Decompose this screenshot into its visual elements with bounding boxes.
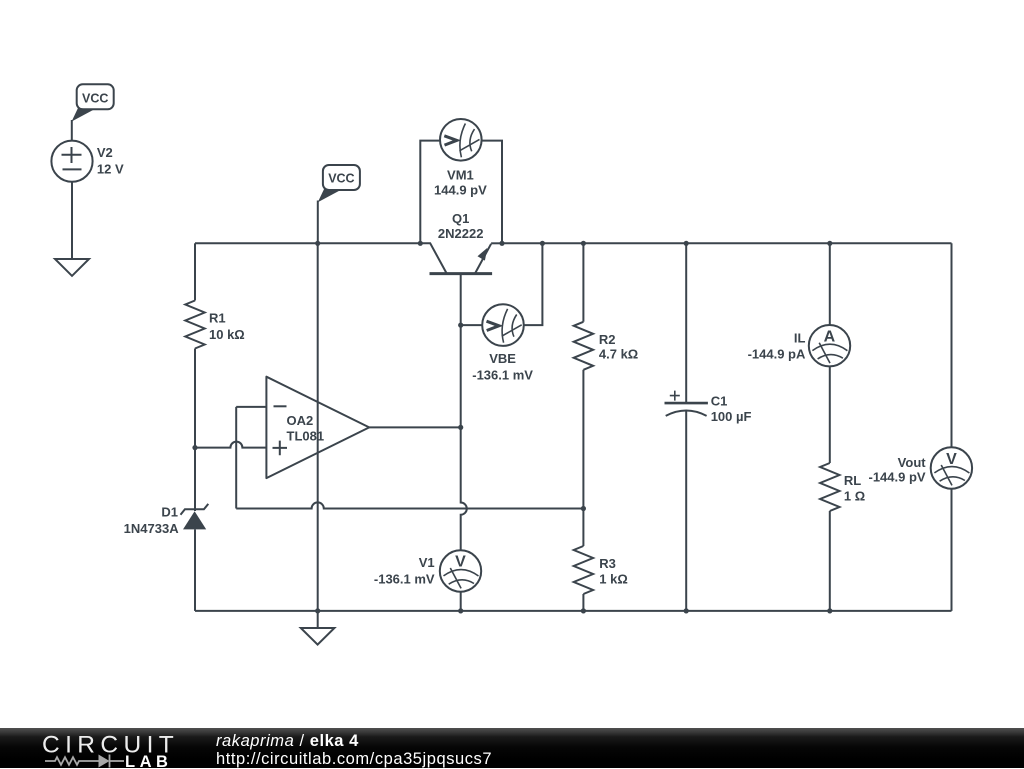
svg-text:-144.9 pA: -144.9 pA xyxy=(748,347,806,362)
svg-text:Q1: Q1 xyxy=(452,211,469,226)
node top bus C1 xyxy=(684,241,689,246)
wire left rail middle xyxy=(194,349,196,448)
svg-text:V: V xyxy=(455,554,466,571)
capacitor C1 xyxy=(665,391,752,425)
wire R2 bottom to feedback node xyxy=(582,370,584,509)
node bottom bus V1 xyxy=(458,608,463,613)
wire opamp + input (with hop over feedback drop) xyxy=(195,442,266,448)
svg-text:2N2222: 2N2222 xyxy=(438,226,484,241)
svg-text:R3: R3 xyxy=(599,556,616,571)
svg-text:OA2: OA2 xyxy=(287,413,314,428)
svg-text:-136.1 mV: -136.1 mV xyxy=(374,572,435,587)
node bottom bus C1 xyxy=(684,608,689,613)
wire C1 bottom xyxy=(685,411,687,611)
resistor R3 xyxy=(574,546,628,594)
node bottom bus ground xyxy=(315,608,320,613)
node feedback / R2 / R3 xyxy=(581,506,586,511)
wire VBE right stub and riser to top bus xyxy=(523,243,542,325)
wire R3 bottom to bus xyxy=(582,594,584,611)
node top bus VM1 left xyxy=(418,241,423,246)
wire VBE left stub xyxy=(461,324,483,326)
wire V2 to ground xyxy=(71,182,73,259)
svg-text:1 kΩ: 1 kΩ xyxy=(599,571,628,586)
svg-text:4.7 kΩ: 4.7 kΩ xyxy=(599,347,638,362)
transistor Q1 2N2222 xyxy=(420,211,502,273)
resistor R2 xyxy=(574,322,639,370)
wire feedback drop xyxy=(235,407,237,509)
svg-text:A: A xyxy=(824,328,836,345)
svg-text:1N4733A: 1N4733A xyxy=(124,521,180,536)
svg-text:LAB: LAB xyxy=(125,753,172,769)
net flag VCC (middle) xyxy=(318,165,360,202)
resistor R1 xyxy=(185,301,244,349)
meter VM1 left leg wire xyxy=(420,141,440,244)
wire Q1 base to VBE node xyxy=(460,274,462,326)
wire VCC flag to top bus xyxy=(317,201,319,244)
wire top bus right segment xyxy=(502,242,952,244)
voltmeter Vout xyxy=(869,447,973,488)
node top bus IL xyxy=(827,241,832,246)
svg-text:10 kΩ: 10 kΩ xyxy=(209,327,245,342)
voltmeter VM1 xyxy=(434,119,487,198)
node Q1 base / VBE xyxy=(458,323,463,328)
svg-text:12 V: 12 V xyxy=(97,161,124,176)
wire IL top xyxy=(829,243,831,325)
resistor RL xyxy=(820,463,865,511)
wire D1 anode to bottom bus xyxy=(194,529,196,611)
node VCC rail top bus xyxy=(315,241,320,246)
wire VCC rail through opamp to ground xyxy=(317,243,319,611)
node top bus VM1 right xyxy=(499,241,504,246)
svg-text:1 Ω: 1 Ω xyxy=(844,488,865,503)
wire opamp output xyxy=(369,426,461,428)
node bottom bus RL xyxy=(827,608,832,613)
svg-text:R2: R2 xyxy=(599,332,616,347)
svg-text:Vout: Vout xyxy=(898,455,927,470)
svg-text:V1: V1 xyxy=(419,555,435,570)
wire VCC flag to V2 xyxy=(71,120,73,141)
svg-text:RL: RL xyxy=(844,473,861,488)
voltmeter V1 xyxy=(374,550,481,591)
svg-text:-144.9 pV: -144.9 pV xyxy=(869,470,926,485)
net flag VCC (left, for V2) xyxy=(72,84,114,121)
svg-text:VBE: VBE xyxy=(489,351,516,366)
ground (below V2) xyxy=(55,259,89,276)
wire R2 top xyxy=(582,243,584,321)
ground (bottom middle) xyxy=(301,611,335,645)
meter VM1 right leg wire xyxy=(482,141,502,244)
svg-text:VM1: VM1 xyxy=(447,168,474,183)
node top bus VBE riser xyxy=(540,241,545,246)
op-amp OA2 TL081 xyxy=(266,377,369,478)
node bottom bus R3 xyxy=(581,608,586,613)
wire right rail lower xyxy=(951,489,953,611)
svg-text:144.9 pV: 144.9 pV xyxy=(434,183,487,198)
node top bus R2 xyxy=(581,241,586,246)
wire feedback run (hop over VCC rail) xyxy=(236,502,583,508)
svg-text:VCC: VCC xyxy=(82,91,108,105)
ammeter IL xyxy=(748,325,851,366)
wire top bus left segment xyxy=(195,242,420,244)
svg-text:IL: IL xyxy=(794,331,806,346)
wire R1 junction to D1 cathode xyxy=(194,448,196,511)
wire RL to bottom bus xyxy=(829,511,831,611)
svg-text:D1: D1 xyxy=(161,505,178,520)
wire R3 top xyxy=(582,509,584,547)
wire opamp - input stub xyxy=(236,406,266,408)
svg-text:V: V xyxy=(946,451,957,468)
wire IL to RL xyxy=(829,366,831,463)
svg-text:-136.1 mV: -136.1 mV xyxy=(472,368,533,383)
voltmeter VBE xyxy=(472,304,533,382)
svg-text:VCC: VCC xyxy=(328,171,354,185)
wire output node down (hop over feedback run) xyxy=(461,427,467,550)
wire right rail upper xyxy=(951,243,953,447)
node opamp output / base xyxy=(458,425,463,430)
wire base node down to opamp output node xyxy=(460,325,462,427)
wire bottom bus xyxy=(195,610,952,612)
node junction R1/D1/+input xyxy=(192,445,197,450)
wire C1 top xyxy=(685,243,687,403)
voltage source V2 xyxy=(51,141,124,182)
svg-text:R1: R1 xyxy=(209,310,226,325)
zener diode D1 1N4733A xyxy=(124,504,209,536)
wire left rail upper xyxy=(194,243,196,300)
wire V1 to bottom bus xyxy=(460,592,462,611)
svg-text:V2: V2 xyxy=(97,145,113,160)
svg-text:C1: C1 xyxy=(711,394,728,409)
svg-text:100 µF: 100 µF xyxy=(711,409,752,424)
